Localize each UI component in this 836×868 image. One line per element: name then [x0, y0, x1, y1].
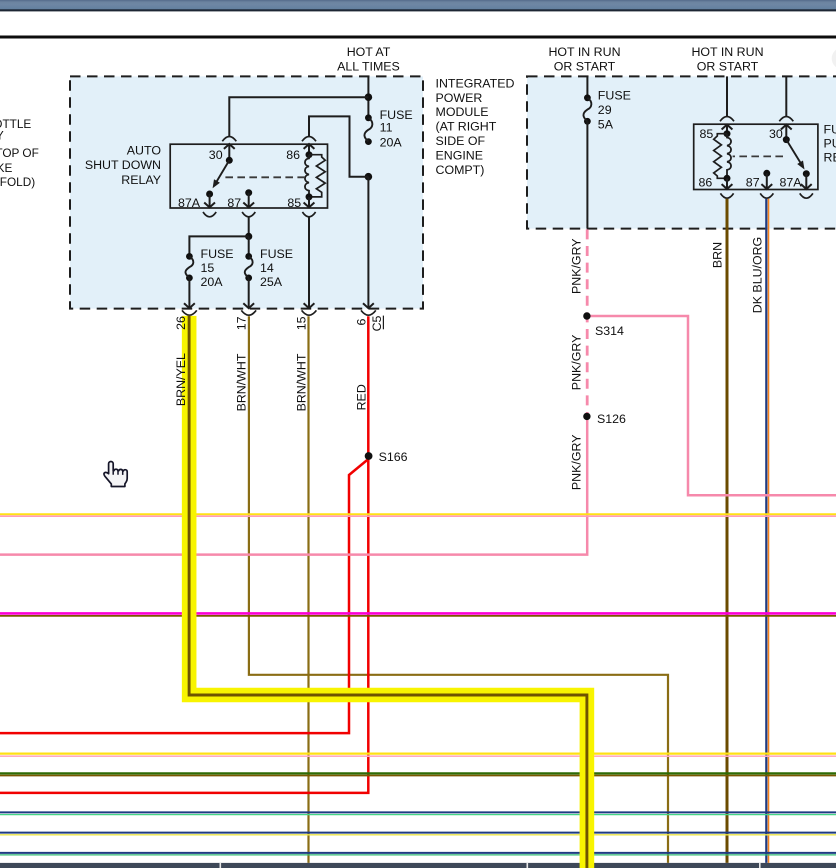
wire branch to fuse 15 [189, 236, 248, 256]
fuse F15 FUSE 15 20A [186, 253, 193, 260]
svg-text:RELAY: RELAY [824, 151, 836, 165]
svg-text:15: 15 [201, 261, 215, 275]
svg-text:20A: 20A [380, 135, 403, 149]
svg-text:ALL TIMES: ALL TIMES [337, 60, 400, 74]
svg-text:ENGINE: ENGINE [436, 149, 484, 163]
svg-text:(AT RIGHT: (AT RIGHT [436, 120, 497, 134]
svg-text:SHUT DOWN: SHUT DOWN [85, 158, 161, 172]
wire PNK/GRY solid below S126, turning left [0, 416, 587, 554]
svg-text:25A: 25A [260, 275, 283, 289]
wire DK BLU horizontal 3 [0, 852, 836, 854]
relay K1 coil resistance zigzag [309, 155, 325, 197]
connector arcs below IPM box [182, 310, 197, 315]
svg-text:KE: KE [0, 161, 13, 175]
svg-text:FUSE: FUSE [201, 247, 234, 261]
svg-text:11: 11 [380, 121, 393, 135]
svg-text:OR START: OR START [697, 60, 759, 74]
fuse F14 FUSE 14 25A [248, 236, 250, 256]
svg-text:BRN/WHT: BRN/WHT [295, 353, 309, 411]
node junction to relay pin 30 [365, 93, 373, 101]
wire YEL horizontal crossing page [0, 513, 836, 515]
switch arm of K1 with arrowhead [215, 160, 229, 183]
svg-text:PNK/GRY: PNK/GRY [570, 238, 584, 294]
wire from K1 pin 87 to fuses [248, 218, 250, 237]
svg-text:FUSE: FUSE [260, 247, 293, 261]
svg-text:HOT IN RUN: HOT IN RUN [548, 45, 620, 59]
wire PNK branch from S314 right and down to right edge [587, 316, 836, 495]
svg-text:OTTLE: OTTLE [0, 117, 31, 131]
mouse hand cursor [104, 462, 127, 487]
splice S314 [583, 312, 590, 319]
svg-text:COMPT): COMPT) [436, 163, 485, 177]
svg-text:RELAY: RELAY [121, 173, 161, 187]
svg-text:15: 15 [295, 316, 309, 330]
connector arc above pin 30 [222, 136, 236, 141]
wire hot-at-all-times feed down into IPM [367, 76, 369, 117]
svg-text:FUEL: FUEL [824, 123, 836, 137]
connector arcs below K2 [720, 193, 733, 198]
wire PNK horizontal paired under YEL [0, 515, 836, 517]
svg-text:ODY: ODY [0, 129, 4, 143]
svg-text:INTEGRATED: INTEGRATED [436, 76, 515, 90]
svg-text:PNK/GRY: PNK/GRY [570, 335, 584, 391]
wire GRN horizontal paired [0, 854, 836, 856]
wire YEL horizontal lower [0, 752, 836, 754]
wire DK GRN horizontal [0, 772, 836, 774]
connector arc above pin 86 [302, 136, 316, 141]
splice S166 [365, 452, 373, 460]
wire branch from fuse 11 to relay pin 86 [309, 116, 368, 176]
svg-text:87A: 87A [178, 196, 201, 210]
wire PNK/GRY dashed from fuse 29 down to S126 [586, 229, 589, 416]
wire RED branch from splice S166 down and left [0, 459, 368, 733]
wire BRN/YEL highlighted trace (yellow highlight) [189, 316, 587, 868]
K1 actuation dashed link [223, 176, 305, 178]
svg-text:S166: S166 [379, 450, 408, 464]
wire LT GRN horizontal paired [0, 814, 836, 816]
IPM bottom connector pin arrows [184, 303, 195, 308]
svg-text:MODULE: MODULE [436, 105, 489, 119]
svg-text:86: 86 [286, 148, 300, 162]
wire MAG horizontal crossing page [0, 612, 836, 615]
wire DK BLU horizontal 1 [0, 811, 836, 813]
relay K1 ASD relay box [170, 144, 327, 208]
wire branch to ASD relay pin 30 [229, 97, 368, 136]
wire BRN from K2 pin 86 down to bottom table [726, 199, 729, 863]
svg-text:20A: 20A [201, 275, 224, 289]
svg-text:C5: C5 [370, 315, 384, 331]
svg-text:TOP OF: TOP OF [0, 146, 39, 160]
svg-text:BRN/WHT: BRN/WHT [235, 353, 249, 411]
svg-text:6: 6 [354, 318, 368, 325]
wire K1 pin 85 to IPM pin 15 [308, 218, 310, 308]
relay K1 coil (scalloped inductor) [305, 155, 309, 197]
K2 actuation dashed link [733, 155, 783, 157]
wire BRN horizontal paired under DK GRN [0, 775, 836, 777]
svg-text:RED: RED [354, 384, 368, 410]
svg-text:14: 14 [260, 261, 274, 275]
svg-text:87A: 87A [780, 175, 803, 189]
svg-text:AUTO: AUTO [127, 144, 162, 158]
svg-text:PNK/GRY: PNK/GRY [570, 435, 584, 491]
wire fuse 29 output to bottom of right IPM box [586, 121, 588, 228]
svg-text:29: 29 [598, 103, 612, 117]
svg-text:BRN: BRN [711, 242, 725, 268]
relay K2 coil resistance zigzag [714, 134, 727, 179]
wire RED from IPM pin 6 down, left at bottom [0, 316, 368, 793]
wire fuse 11 output down to IPM connector pin 6 [367, 177, 369, 308]
browser/app top bar [0, 0, 836, 10]
wire DK BLU horizontal 2 [0, 832, 836, 834]
svg-text:S314: S314 [595, 324, 624, 338]
wire BRN/WHT from IPM pin 15 down to bottom table [307, 316, 309, 863]
relay K2 coil (scalloped inductor) [727, 134, 731, 179]
wire hot-in-run feed to K2 pin 30 [785, 76, 787, 116]
connector arcs below K1 [203, 212, 216, 217]
wire BRN/YEL core conductor [189, 316, 587, 868]
svg-text:BRN/YEL: BRN/YEL [174, 353, 188, 406]
svg-text:PUMP: PUMP [824, 137, 836, 151]
wire BRN horizontal paired under MAG [0, 615, 836, 617]
svg-text:SIDE OF: SIDE OF [436, 134, 486, 148]
svg-text:85: 85 [287, 196, 301, 210]
wire BRN/WHT from IPM pin 17 down then right then down [249, 316, 668, 863]
svg-text:85: 85 [700, 127, 714, 141]
svg-text:87: 87 [227, 196, 241, 210]
black separator line [0, 36, 836, 39]
relay K2 fuel pump relay box [694, 124, 818, 189]
svg-text:DK BLU/ORG: DK BLU/ORG [751, 237, 765, 313]
connector arcs above K2 [720, 116, 734, 121]
svg-text:FOLD): FOLD) [0, 175, 35, 189]
svg-text:26: 26 [174, 316, 188, 330]
svg-text:S126: S126 [597, 412, 626, 426]
node junction above fuse 14 [245, 233, 252, 240]
wire fuse 15 output to IPM pin 26 [188, 278, 190, 307]
svg-text:HOT AT: HOT AT [347, 45, 391, 59]
integrated power module box (right) [527, 76, 836, 228]
wire PNK horizontal paired under lower YEL [0, 755, 836, 757]
splice S126 [583, 413, 590, 420]
wire fuse 14 output to IPM pin 17 [248, 278, 250, 307]
svg-text:86: 86 [699, 175, 713, 189]
wire YEL horizontal paired [0, 834, 836, 836]
svg-text:87: 87 [746, 175, 760, 189]
svg-text:FUSE: FUSE [598, 89, 631, 103]
wire hot-in-run feed to fuse 29 [586, 76, 588, 97]
svg-text:POWER: POWER [436, 91, 483, 105]
svg-text:17: 17 [235, 316, 249, 330]
svg-text:HOT IN RUN: HOT IN RUN [691, 45, 763, 59]
wire hot-in-run feed to K2 pin 85 [726, 76, 728, 116]
integrated power module box (left) [70, 76, 423, 308]
fuse F11 FUSE 11 20A [365, 114, 372, 121]
wire DK BLU/ORG from K2 pin 87 down to bottom table [768, 199, 770, 863]
node junction below fuse 11 [365, 173, 373, 181]
floating round button at right edge [832, 48, 836, 70]
bottom table header bar [0, 863, 836, 868]
fuse F29 FUSE 29 5A [584, 94, 591, 101]
svg-text:5A: 5A [598, 118, 614, 132]
svg-text:30: 30 [209, 148, 223, 162]
switch arm of K2 with arrowhead [786, 140, 802, 165]
svg-text:OR START: OR START [554, 60, 616, 74]
